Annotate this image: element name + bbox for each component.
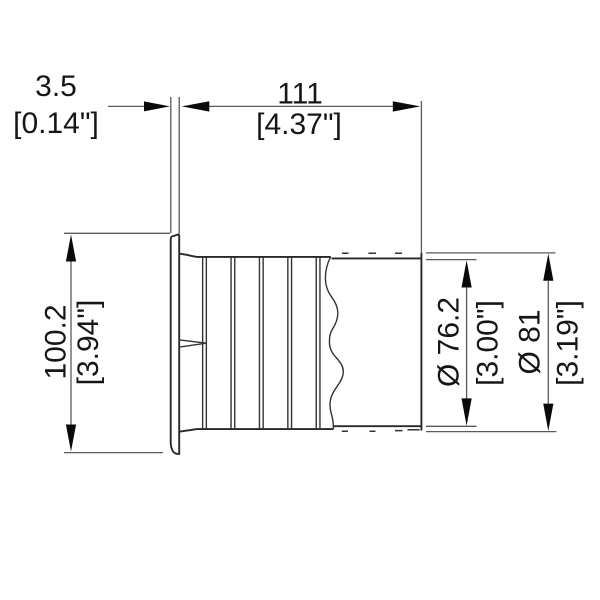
arrow 100.2 bottom (pointing down) xyxy=(66,425,76,452)
extension line flange top xyxy=(64,232,170,234)
svg-text:Ø 81: Ø 81 xyxy=(514,309,547,374)
svg-text:111: 111 xyxy=(277,78,323,111)
svg-text:[4.37"]: [4.37"] xyxy=(256,108,342,141)
svg-text:100.2: 100.2 xyxy=(40,304,73,379)
extension line flange bottom xyxy=(64,452,163,454)
dimension line 100.2 xyxy=(70,260,72,426)
arrow dia81 bottom (pointing down) xyxy=(543,404,553,431)
break (wavy) line xyxy=(325,257,343,429)
arrow 111 right (pointing right) xyxy=(393,101,421,111)
rib 1 xyxy=(203,257,207,429)
rib 4 xyxy=(288,257,292,429)
svg-text:3.5: 3.5 xyxy=(35,70,77,103)
body right end edge xyxy=(420,253,422,431)
arrow 100.2 top (pointing up) xyxy=(66,235,76,262)
rib 5 xyxy=(316,257,320,429)
internal taper wedge lower line xyxy=(179,343,207,347)
dimension line 111 xyxy=(209,105,393,107)
extension line body right end xyxy=(420,101,422,253)
arrow dia76.2 top (pointing up) xyxy=(462,260,472,287)
right section bottom edge (inner bore) xyxy=(334,425,421,427)
svg-text:[3.00"]: [3.00"] xyxy=(472,300,505,386)
extension line OD bottom xyxy=(426,431,557,433)
dimension line dia 76.2 xyxy=(466,287,468,399)
hidden line top (outer dia) xyxy=(342,252,402,254)
extension line bore top xyxy=(426,259,477,261)
svg-text:Ø 76.2: Ø 76.2 xyxy=(433,297,466,387)
arrow 111 left (pointing left) xyxy=(182,101,210,111)
svg-text:[3.94"]: [3.94"] xyxy=(72,300,105,386)
rib 2 xyxy=(231,257,235,429)
body top outline xyxy=(179,254,331,257)
arrow dia81 top (pointing up) xyxy=(543,254,553,281)
dimension line dia 81 xyxy=(547,281,549,404)
flange outline xyxy=(171,234,180,454)
svg-text:[3.19"]: [3.19"] xyxy=(552,300,585,386)
right section top edge (inner bore) xyxy=(332,257,421,259)
extension line flange right edge xyxy=(178,97,180,234)
arrow 3.5 left (pointing right) xyxy=(144,101,170,111)
arrow dia76.2 bottom (pointing down) xyxy=(462,398,472,425)
extension line OD top xyxy=(426,252,556,254)
extension line flange left edge xyxy=(170,97,172,233)
body bottom outline xyxy=(179,429,333,432)
extension line bore bottom xyxy=(426,425,477,427)
leader line for 3.5 dimension xyxy=(108,105,146,107)
hidden line bottom (outer dia) xyxy=(342,430,420,431)
rib 3 xyxy=(259,257,263,429)
internal taper wedge upper line xyxy=(179,340,207,343)
svg-text:[0.14"]: [0.14"] xyxy=(13,107,99,140)
